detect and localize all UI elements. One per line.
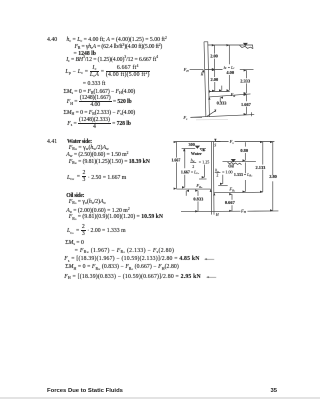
svg-text:Fs: Fs [182,115,188,121]
hc dimension line at x=229.3 [228,45,230,90]
ho/2 fraction bar [215,172,221,174]
2.80 dimension line [272,142,274,210]
svg-text:0.80: 0.80 [240,148,248,153]
label FRw [195,183,203,189]
svg-text:FR: FR [230,92,236,98]
Lcw lower outside arrow [185,191,187,196]
line: Oil side: [66,193,84,199]
1.00 pointer arrow [218,175,228,186]
footer rule [0,397,320,398]
label S at wall top [214,143,216,147]
2.333 dimension line [245,70,247,93]
line: Lcw fraction [67,171,126,184]
line: Fs = 728 lb [67,117,131,130]
svg-text:Fs: Fs [229,139,235,145]
svg-text:4.00: 4.00 [226,70,234,75]
line: FH = 520 lb [67,95,132,108]
diagram for problem 4.40 [178,36,258,122]
label 2.133 [256,165,267,170]
svg-text:2.133: 2.133 [256,165,267,170]
hinge level line right [247,210,278,212]
label hc = Lc [224,66,236,70]
svg-text:2.00: 2.00 [210,54,218,59]
line: sum MH [64,110,136,116]
svg-text:1.667: 1.667 [241,102,252,107]
label 0.833 [193,196,204,201]
svg-text:= 1.00: = 1.00 [222,169,233,174]
water surface symbol [195,146,205,151]
FRw force arrow [176,188,210,190]
label 2 denominator [192,164,194,169]
line: FRo formula [69,199,106,205]
0.667 dimension line [231,194,233,211]
line: Water side: [67,139,92,145]
label 2 denominator oil [216,172,218,177]
svg-text:2.80: 2.80 [269,174,277,179]
hinge hatch at wall bottom [207,110,216,116]
svg-text:= 1.25: = 1.25 [199,159,210,164]
dimension line x=214.6 (2.00 / 2.00) [214,45,216,91]
hinge level line left [181,210,241,212]
label 1.667 [241,102,252,107]
line: = FRw(1.967) [75,248,175,254]
svg-text:H: H [200,73,204,77]
label 0.333 [217,101,228,106]
gate wall [211,142,214,215]
label 2.00 upper [210,54,218,59]
top line full width [175,141,274,143]
centroid level line [209,90,230,92]
svg-text:2: 2 [216,172,218,177]
line: = 1248 lb [74,51,96,57]
problem number 4.41 [47,139,57,145]
footer title [47,388,123,394]
svg-text:0.667: 0.667 [225,200,236,205]
line: Lco fraction [67,224,126,237]
svg-text:FRo: FRo [228,187,236,193]
line: sum Ms [64,89,136,95]
svg-text:1.667: 1.667 [171,157,180,162]
svg-text:Oil: Oil [228,163,234,168]
label 1.667 = Lcw [181,169,200,175]
label Fs on top line [229,139,235,145]
line: = 0.333 ft [83,81,106,87]
0.833 dimension line [197,191,199,212]
Lco dimension line [244,162,246,191]
label Water [191,151,202,156]
line: FRw value [69,159,150,165]
label FR [230,92,236,98]
label = 1.00 [222,169,233,174]
1.667 dimension line [245,95,247,114]
line: sum MH [65,264,179,270]
label 0.667 [225,200,236,205]
Fs force arrow [190,116,202,118]
Lcw dimension line [184,149,186,187]
far-left 1.667 dimension line [175,142,177,189]
gate top level right extension [240,69,254,71]
svg-text:2.333: 2.333 [240,78,251,83]
label 2.00 lower [211,77,219,82]
line: Fs = 4.85 kN [64,256,207,262]
line: Aw [66,152,128,158]
line: Ao [66,208,129,214]
label 1.667 far left [171,157,180,162]
label Fs [182,115,188,121]
svg-text:2.00: 2.00 [211,77,219,82]
svg-text:Water: Water [191,151,202,156]
label FRo [228,187,236,193]
line: FRw formula [69,145,109,151]
line: Lp - Lc fraction [65,65,149,78]
oil surface symbol [228,159,242,164]
water surface symbol [240,43,253,49]
svg-text:0.333: 0.333 [217,101,228,106]
FH force arrow [190,68,204,70]
lower ground artifact line [196,119,228,121]
label 300 [189,142,195,147]
300 dimension line with water surface [182,147,206,149]
label FH at hinge [240,208,247,214]
line: FH = 2.95 kN [64,274,208,280]
pressure-centre level line (FR) [209,94,250,97]
label hw numerator [191,157,195,163]
line: FR [75,44,163,50]
svg-text:S: S [214,109,216,113]
water surface line [208,44,248,46]
label H at wall [200,73,204,77]
label FH [183,67,190,73]
footer page number [271,388,278,394]
line: sum Ms = 0 [65,240,84,246]
label ho numerator [215,168,219,174]
label = 1.25 [199,159,210,164]
line: Ic [66,57,158,63]
0.80 dimension line [244,142,246,160]
top line arrowhead at wall (Fs) [215,141,220,143]
label Oil [228,163,234,168]
line: hc = Lc [67,37,167,43]
2.133 dimension line [262,142,264,192]
label H at wall bottom [215,213,219,217]
label 0.80 [240,148,248,153]
svg-text:300: 300 [189,142,195,147]
oil surface line [223,161,256,163]
label S at wall bottom [214,109,216,113]
svg-text:1.667 = Lcw: 1.667 = Lcw [181,169,200,175]
label 4.00 [226,70,234,75]
problem number 4.40 [47,37,57,43]
gate top level line [205,69,223,71]
svg-text:hw: hw [191,157,195,163]
svg-text:0.833: 0.833 [193,196,204,201]
FRo force arrow [214,191,262,193]
label 2.333 [240,78,251,83]
0.333 dimension arrows [220,86,222,103]
svg-text:FH: FH [183,67,190,73]
line: FRo value [69,214,163,220]
bottom stop line [191,112,255,117]
label 1.333 = LRo [234,172,253,178]
svg-text:FH: FH [240,208,247,214]
gate wall [204,42,209,117]
svg-text:FRw: FRw [195,183,203,189]
hw/2 fraction bar [190,161,196,163]
svg-text:S: S [214,143,216,147]
diagram for problem 4.41 [168,133,284,221]
svg-text:H: H [215,213,219,217]
label 2.80 [269,174,277,179]
svg-text:1.333 = LRo: 1.333 = LRo [234,172,253,178]
1.25 pointer arrow [199,165,207,179]
